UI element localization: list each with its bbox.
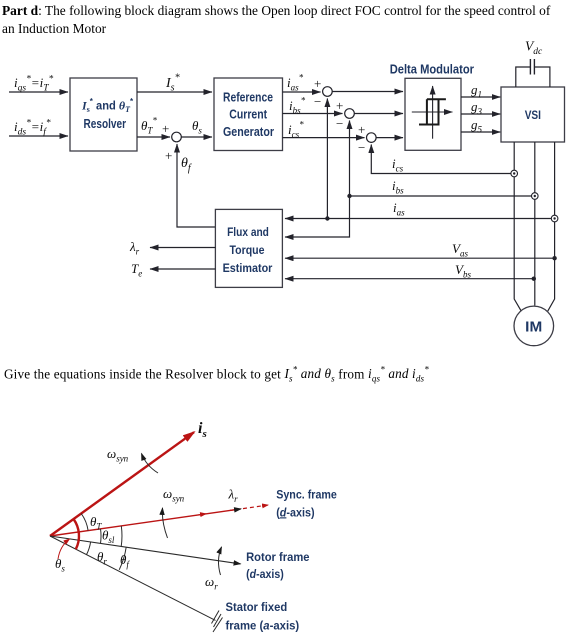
svg-text:Reference: Reference bbox=[223, 90, 273, 104]
wire VSI phase b bbox=[534, 142, 536, 306]
block flux and torque estimator bbox=[215, 209, 282, 287]
wire input iqs* bbox=[9, 91, 68, 93]
svg-text:Estimator: Estimator bbox=[223, 261, 273, 275]
vector lambda_r sync axis solid bbox=[50, 509, 238, 536]
svg-text:Resolver: Resolver bbox=[84, 117, 127, 131]
wire ias feedback bbox=[327, 218, 551, 220]
small red arrow on lambda_r line bbox=[196, 514, 206, 515]
arc theta_r bbox=[87, 542, 91, 555]
hysteresis loop bbox=[419, 99, 446, 124]
wire input ids* bbox=[9, 135, 68, 137]
rotor frame axis bbox=[50, 536, 241, 564]
red curved arrow theta_s bbox=[58, 539, 70, 559]
arc theta_sl outer bbox=[120, 526, 123, 547]
svg-text:Is* and θT*: Is* and θT* bbox=[81, 97, 134, 114]
block delta modulator bbox=[405, 78, 461, 150]
svg-text:Is*: Is* bbox=[165, 73, 180, 94]
svg-text:frame (a-axis): frame (a-axis) bbox=[226, 621, 300, 633]
svg-text:θsl: θsl bbox=[102, 528, 115, 546]
svg-text:λr: λr bbox=[228, 487, 239, 505]
wire J1 to delta bbox=[332, 91, 403, 93]
svg-text:Vas: Vas bbox=[452, 241, 468, 259]
svg-text:−: − bbox=[336, 116, 343, 131]
svg-text:λr: λr bbox=[129, 239, 140, 257]
svg-text:ids*=if*: ids*=if* bbox=[14, 119, 51, 138]
svg-text:Generator: Generator bbox=[223, 125, 274, 139]
capacitor Vdc wires bbox=[516, 67, 550, 87]
svg-text:ibs: ibs bbox=[392, 178, 404, 196]
junction dot Vas bbox=[552, 256, 556, 260]
svg-text:−: − bbox=[314, 94, 321, 109]
wire thetaT* resolver to sum bbox=[137, 136, 170, 138]
curved arrow omega_syn 2 bbox=[162, 508, 167, 538]
svg-text:ias*: ias* bbox=[287, 73, 304, 93]
wire Vbs bbox=[285, 278, 534, 280]
junction dot ibs bbox=[347, 194, 351, 198]
svg-text:θs: θs bbox=[55, 556, 65, 574]
svg-text:Current: Current bbox=[229, 108, 267, 122]
svg-text:Torque: Torque bbox=[230, 243, 265, 257]
wire VSI phase c bbox=[548, 142, 555, 311]
svg-text:+: + bbox=[336, 98, 343, 113]
arc theta_f bbox=[119, 547, 126, 570]
summing junction theta bbox=[172, 132, 182, 142]
wire theta_s sum to RCG bbox=[182, 136, 213, 138]
svg-text:(d-axis): (d-axis) bbox=[276, 507, 315, 519]
junction dot ias bbox=[325, 216, 329, 220]
wire Is* resolver to RCG bbox=[137, 91, 212, 93]
svg-text:VSI: VSI bbox=[525, 110, 541, 122]
curved arrow omega_syn 1 bbox=[142, 454, 159, 474]
svg-text:ias: ias bbox=[393, 200, 405, 218]
svg-text:θr: θr bbox=[97, 549, 107, 567]
svg-text:θs: θs bbox=[192, 118, 202, 136]
svg-text:g5: g5 bbox=[471, 117, 483, 135]
stator axis bbox=[50, 536, 216, 620]
arc theta_sl inner bbox=[100, 529, 103, 544]
svg-text:θf: θf bbox=[181, 156, 192, 174]
svg-text:g1: g1 bbox=[471, 82, 482, 100]
svg-text:+: + bbox=[358, 122, 365, 137]
svg-text:g3: g3 bbox=[471, 99, 483, 117]
wire ias into estimator bbox=[285, 218, 327, 220]
wire ics feedback bbox=[371, 145, 511, 174]
wire ibs* to J2 bbox=[283, 113, 343, 115]
svg-text:ibs*: ibs* bbox=[289, 96, 306, 116]
wire g3 bbox=[461, 113, 500, 115]
wire Te output bbox=[150, 268, 215, 270]
current sensor node phase c bbox=[551, 215, 558, 222]
svg-text:+: + bbox=[162, 121, 169, 136]
svg-text:ics*: ics* bbox=[288, 120, 304, 140]
wire g5 bbox=[461, 131, 500, 133]
svg-text:+: + bbox=[165, 148, 172, 163]
svg-text:Stator fixed: Stator fixed bbox=[226, 602, 288, 614]
svg-text:ωr: ωr bbox=[205, 574, 218, 592]
paragraph: Part d heading bbox=[2, 2, 577, 38]
svg-text:(d-axis): (d-axis) bbox=[246, 569, 284, 581]
svg-text:IM: IM bbox=[525, 319, 542, 335]
summing junction J3 bbox=[367, 133, 377, 143]
svg-text:Flux and: Flux and bbox=[227, 225, 269, 239]
svg-text:Vdc: Vdc bbox=[525, 39, 543, 58]
hysteresis axes bbox=[412, 111, 453, 113]
svg-text:ics: ics bbox=[392, 156, 404, 174]
paragraph: question line bbox=[4, 361, 582, 388]
wire ibs down to estimator bbox=[285, 196, 350, 237]
black arrowhead lambda_r bbox=[230, 509, 241, 511]
block resolver bbox=[70, 78, 137, 151]
junction dot Vbs bbox=[532, 277, 536, 281]
wire lambda_r output bbox=[150, 247, 215, 249]
svg-text:Rotor frame: Rotor frame bbox=[246, 552, 309, 564]
block VSI bbox=[501, 87, 565, 142]
svg-text:iqs*=iT*: iqs*=iT* bbox=[14, 75, 54, 94]
wire VSI phase a bbox=[514, 142, 521, 311]
capacitor Vdc plates bbox=[529, 59, 531, 75]
wire ics* to J3 bbox=[283, 137, 365, 139]
wire ias* to J1 bbox=[283, 91, 321, 93]
wire theta_f up into sum bbox=[177, 144, 215, 227]
block reference current generator bbox=[214, 78, 283, 151]
wire J3 to delta bbox=[376, 137, 403, 139]
sync axis dashed extension bbox=[243, 505, 268, 509]
svg-text:ωsyn: ωsyn bbox=[163, 486, 185, 504]
current sensor node phase a bbox=[511, 170, 518, 177]
svg-text:Vbs: Vbs bbox=[455, 262, 471, 280]
vector i_s bbox=[50, 432, 194, 536]
svg-text:Sync. frame: Sync. frame bbox=[276, 490, 337, 502]
stator axis hash marks bbox=[212, 611, 220, 624]
summing junction J2 bbox=[345, 109, 355, 119]
wire ibs feedback bbox=[350, 195, 532, 197]
svg-text:Delta Modulator: Delta Modulator bbox=[390, 62, 474, 76]
wire Vas bbox=[285, 257, 555, 259]
wire g1 bbox=[461, 96, 500, 98]
curved arrow omega_r bbox=[218, 547, 221, 575]
svg-text:ωsyn: ωsyn bbox=[107, 446, 129, 464]
svg-text:Te: Te bbox=[131, 261, 142, 279]
svg-text:θf: θf bbox=[120, 552, 130, 570]
arc theta_T bbox=[81, 514, 88, 531]
red arc theta_s bbox=[74, 519, 79, 549]
summing junction J1 bbox=[323, 87, 333, 97]
svg-text:is: is bbox=[198, 420, 207, 440]
current sensor node phase b bbox=[532, 193, 539, 200]
svg-text:θT*: θT* bbox=[141, 116, 157, 136]
induction motor IM bbox=[514, 306, 554, 346]
wire J2 to delta bbox=[354, 113, 403, 115]
svg-text:−: − bbox=[358, 140, 365, 155]
svg-text:+: + bbox=[314, 76, 321, 91]
